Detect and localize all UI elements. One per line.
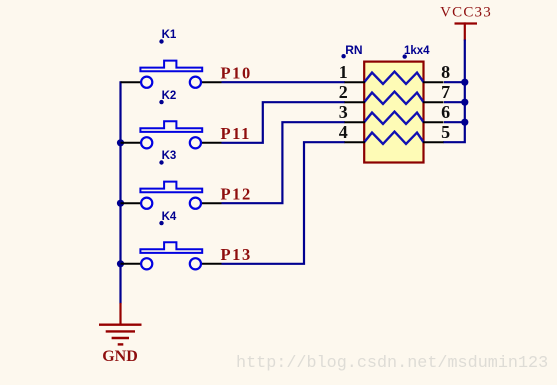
wire K2 to RN pin 2	[222, 102, 346, 143]
pin 2	[345, 101, 366, 103]
pin 5	[423, 141, 444, 143]
pin 4	[345, 141, 366, 143]
junction at pin 6	[461, 119, 468, 126]
svg-text:K3: K3	[162, 150, 177, 162]
junction bus at K4	[117, 260, 124, 267]
resistor element 4	[364, 132, 423, 144]
pin 3	[345, 121, 366, 123]
pin 7	[423, 101, 444, 103]
wire pin 8 to rail	[444, 81, 465, 83]
svg-text:K4: K4	[162, 211, 177, 223]
svg-text:2: 2	[339, 82, 348, 102]
svg-text:3: 3	[339, 102, 348, 122]
pushbutton K2	[121, 90, 222, 149]
svg-text:http://blog.csdn.net/msdumin12: http://blog.csdn.net/msdumin123	[236, 354, 548, 373]
ground GND	[99, 303, 142, 365]
svg-text:5: 5	[441, 122, 450, 142]
wire K1 to RN pin 1	[222, 81, 346, 83]
junction bus at K2	[117, 139, 124, 146]
svg-text:RN: RN	[345, 43, 362, 57]
junction bus at K3	[117, 200, 124, 207]
svg-text:P11: P11	[221, 124, 251, 143]
svg-text:7: 7	[441, 82, 450, 102]
pushbutton K4	[121, 211, 222, 270]
pushbutton K1	[121, 29, 222, 88]
resistor element 1	[364, 72, 423, 84]
junction at pin 8	[461, 79, 468, 86]
svg-text:P10: P10	[221, 63, 252, 82]
pin 1	[345, 81, 366, 83]
wire K4 to RN pin 4	[222, 142, 346, 264]
svg-text:1kx4: 1kx4	[404, 45, 430, 57]
resistor network RN 1kx4 body	[364, 62, 423, 163]
resistor element 3	[364, 112, 423, 124]
svg-text:K2: K2	[162, 90, 177, 102]
svg-text:VCC33: VCC33	[440, 5, 492, 21]
svg-text:4: 4	[339, 122, 348, 142]
power VCC33	[440, 5, 492, 41]
svg-text:1: 1	[339, 62, 348, 82]
wire pin 7 to rail	[444, 101, 465, 103]
svg-text:8: 8	[441, 62, 450, 82]
svg-text:K1: K1	[162, 29, 177, 41]
wire pin 6 to rail	[444, 121, 465, 123]
svg-text:P13: P13	[221, 245, 252, 264]
svg-text:GND: GND	[102, 348, 138, 365]
resistor element 2	[364, 92, 423, 104]
wire K3 to RN pin 3	[222, 122, 346, 203]
pin 8	[423, 81, 444, 83]
wire VCC rail to pin 5	[443, 40, 465, 143]
wire left bus	[119, 81, 121, 303]
svg-text:6: 6	[441, 102, 450, 122]
pin 6	[423, 121, 444, 123]
pushbutton K3	[121, 150, 222, 209]
junction at pin 7	[461, 99, 468, 106]
svg-text:P12: P12	[221, 184, 252, 203]
